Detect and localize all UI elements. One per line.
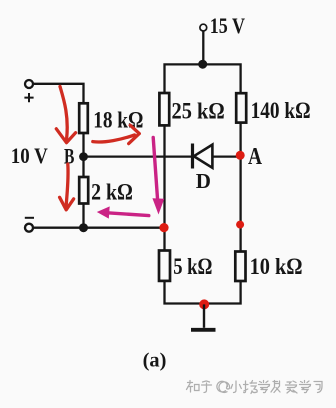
wire 15V stub down to top bus bbox=[202, 31, 204, 64]
svg-text:2 kΩ: 2 kΩ bbox=[91, 180, 133, 205]
svg-text:140 kΩ: 140 kΩ bbox=[251, 98, 311, 123]
arrow magenta left bbox=[97, 206, 149, 218]
resistor 140k bbox=[236, 93, 310, 123]
node top junction bbox=[198, 60, 207, 69]
svg-text:25 kΩ: 25 kΩ bbox=[172, 98, 225, 123]
wire from + terminal to 18k bbox=[33, 84, 83, 104]
wire top bus bbox=[165, 64, 241, 93]
terminal + of 10V source bbox=[24, 80, 33, 102]
svg-text:(a): (a) bbox=[143, 351, 167, 372]
svg-text:10 V: 10 V bbox=[11, 143, 48, 168]
svg-text:A: A bbox=[248, 144, 263, 170]
svg-text:10 kΩ: 10 kΩ bbox=[250, 254, 303, 279]
node red junction left-mid bbox=[159, 223, 168, 232]
node junction at 2k bottom bbox=[79, 223, 88, 232]
arrow red right (at node B) bbox=[93, 125, 140, 143]
wire right vertical 140k to A and below bbox=[239, 123, 241, 252]
svg-text:5 kΩ: 5 kΩ bbox=[173, 254, 212, 279]
terminal - of 10V source bbox=[25, 218, 34, 232]
wire 18k lead to node B bbox=[82, 133, 84, 157]
node red bottom center bbox=[199, 299, 209, 309]
watermark zhihu bbox=[187, 381, 323, 394]
node B bbox=[64, 144, 88, 169]
svg-text:D: D bbox=[196, 169, 211, 193]
resistor 10k bbox=[235, 252, 302, 282]
node A bbox=[236, 144, 263, 170]
wire bottom bus bbox=[165, 281, 241, 304]
diode D bbox=[193, 144, 213, 194]
node red mid-wire right bbox=[236, 221, 244, 229]
ground bbox=[191, 304, 216, 329]
wire left mid vertical (25k lead down through crossing) bbox=[163, 125, 165, 250]
svg-text:15 V: 15 V bbox=[210, 13, 245, 38]
arrow magenta long vertical bbox=[152, 138, 164, 215]
wire 2k leads bbox=[82, 157, 84, 228]
resistor 5k bbox=[159, 251, 212, 281]
arrow red curved down (18k current) bbox=[56, 87, 75, 143]
wire bottom-left bus bbox=[33, 227, 164, 229]
resistor 2k bbox=[79, 177, 133, 205]
resistor 18k bbox=[79, 103, 143, 133]
arrow red down (2k current) bbox=[60, 164, 74, 210]
terminal +15V supply bbox=[200, 13, 245, 38]
resistor 25k bbox=[159, 93, 224, 125]
wire B to A horizontal bbox=[84, 155, 241, 157]
